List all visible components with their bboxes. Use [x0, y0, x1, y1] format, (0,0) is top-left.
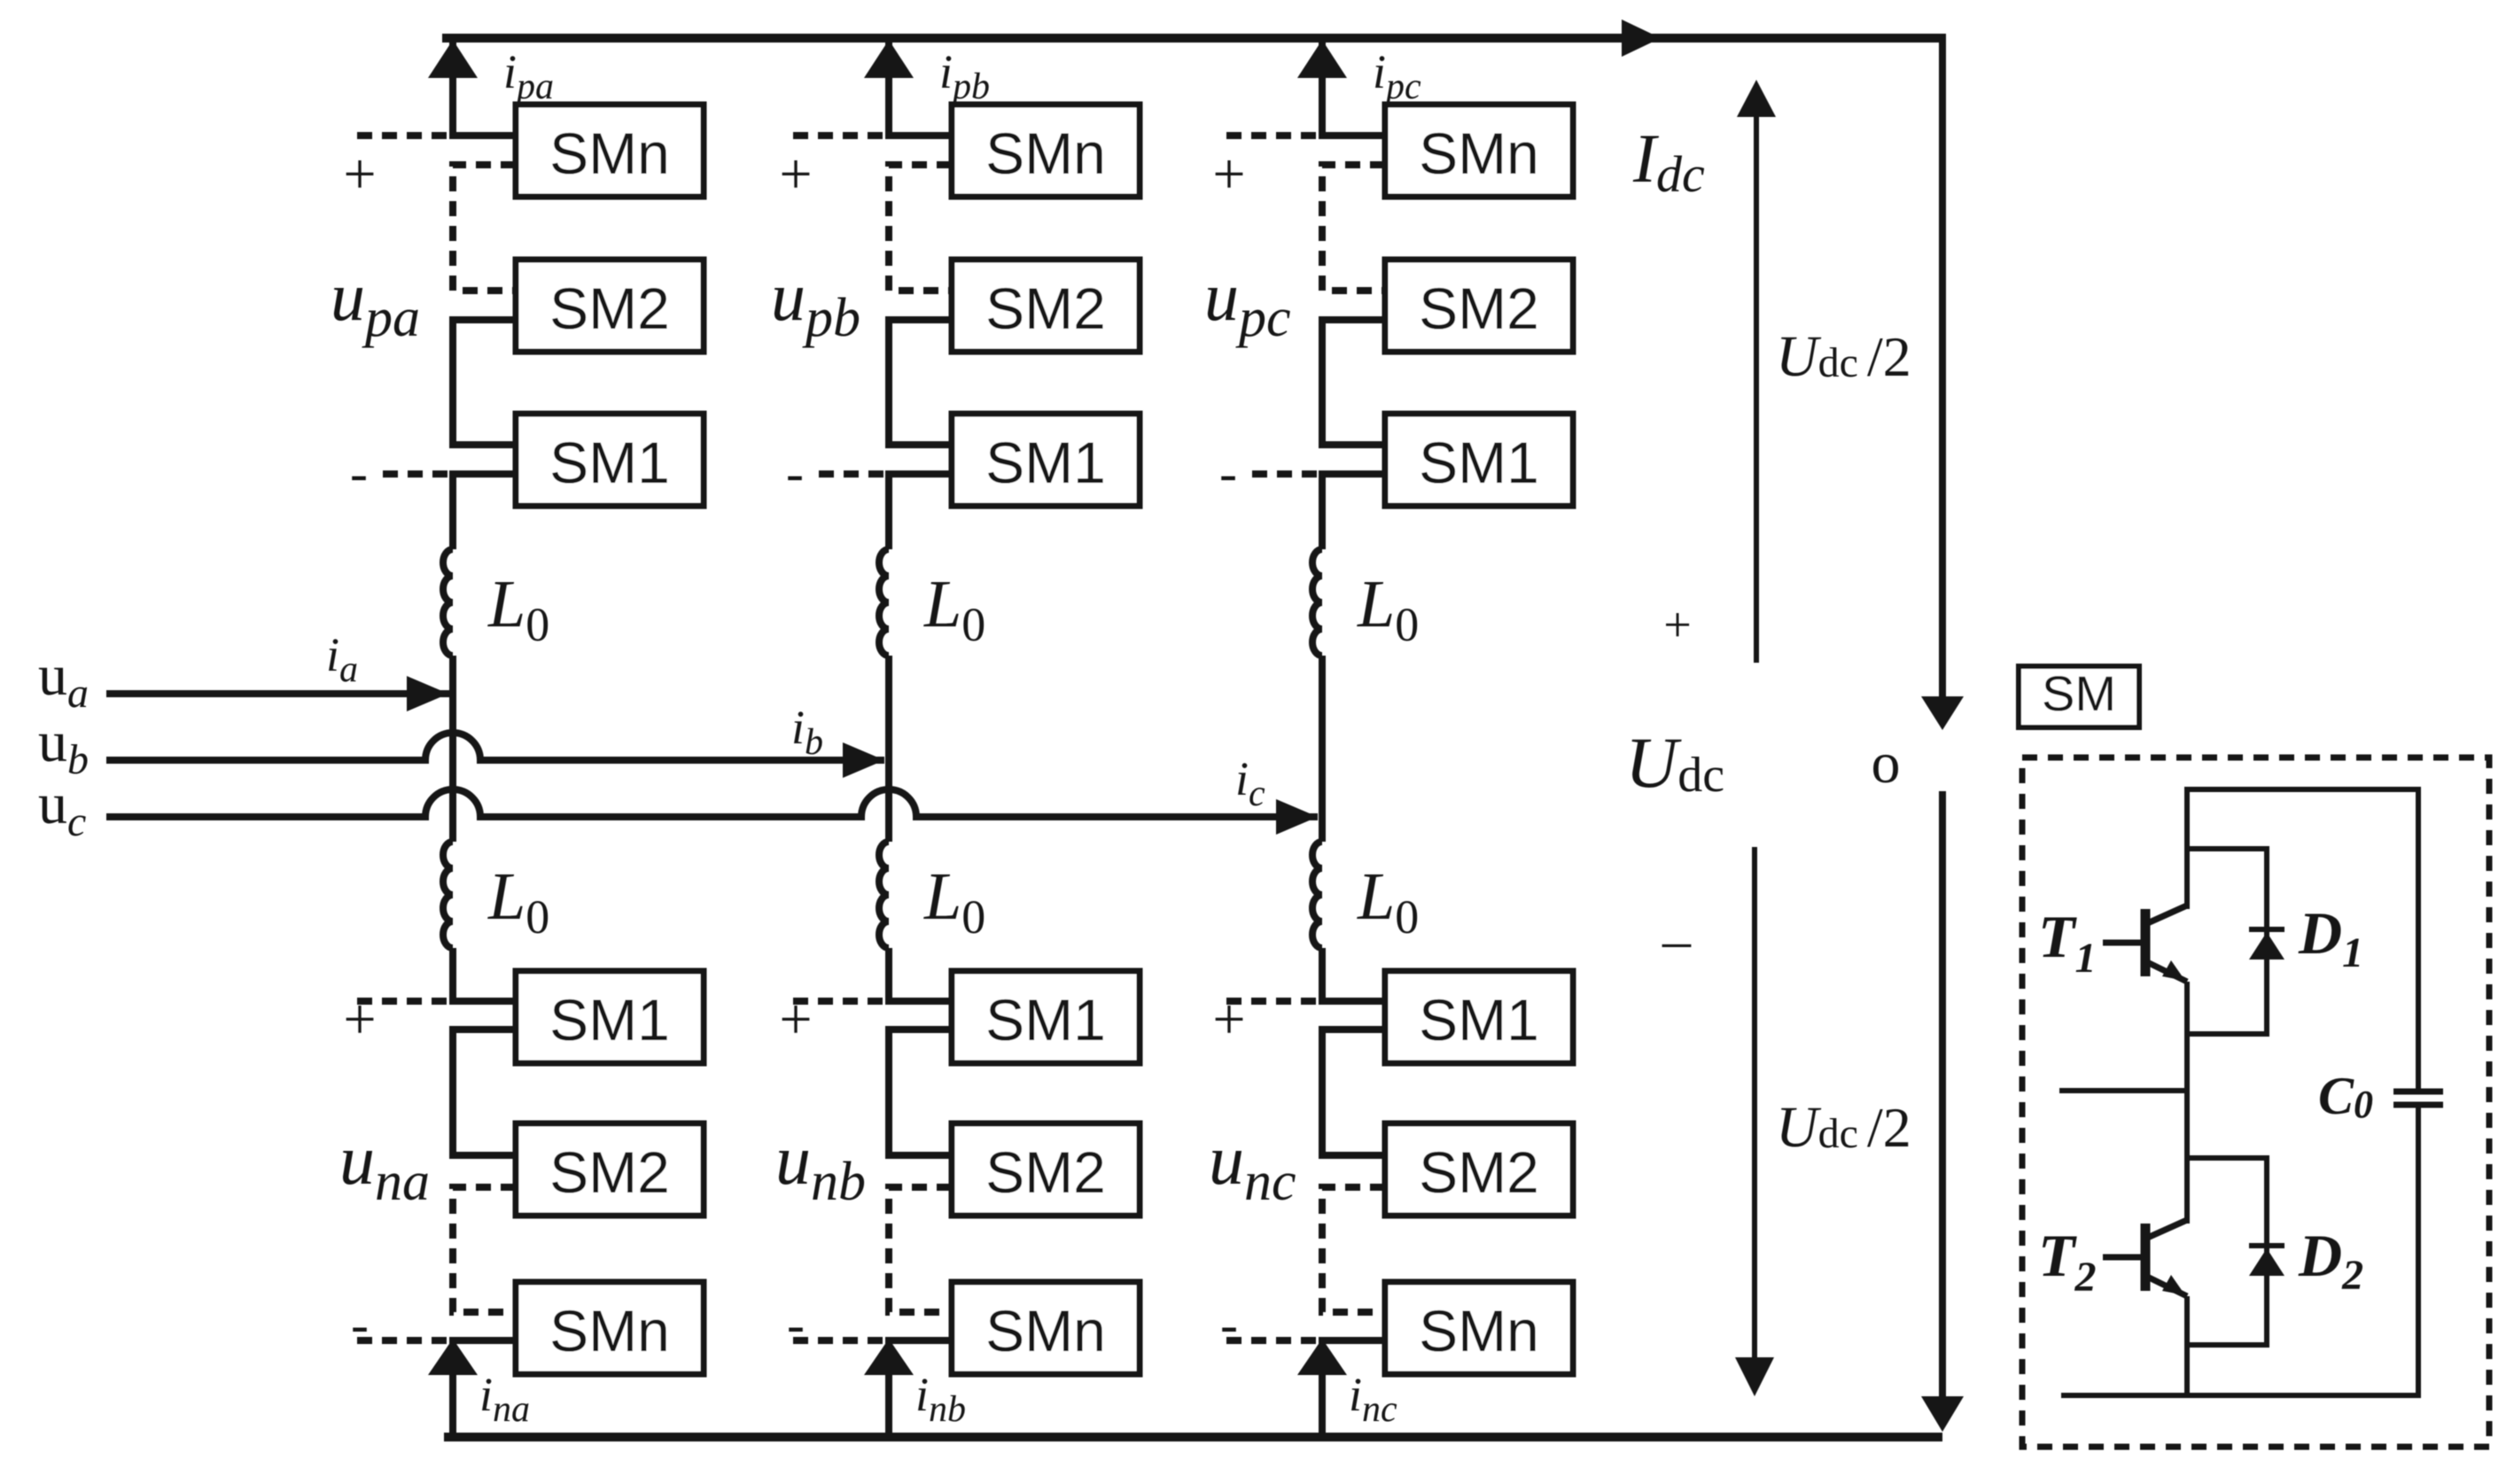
wire dashed - lead lower arm c — [1226, 1337, 1319, 1344]
label + (DC midpoint upper) — [1663, 598, 1692, 653]
svg-text:SM1: SM1 — [1419, 987, 1539, 1053]
arrow AC current i_c — [1276, 799, 1318, 835]
svg-text:-: - — [1220, 1295, 1238, 1354]
SM box SM2 lower arm a — [516, 1123, 704, 1216]
svg-text:SM1: SM1 — [985, 430, 1106, 495]
arrow down to node o (upper right) — [1921, 696, 1964, 730]
wire phase a upper arm: bus to SMn terminal — [453, 38, 516, 136]
capacitor C0 — [2393, 1092, 2443, 1105]
svg-text:–: – — [1662, 908, 1692, 971]
label T1 — [2038, 903, 2097, 982]
label C0 — [2318, 1067, 2373, 1126]
wire bottom DC bus (negative rail) — [444, 1433, 1942, 1441]
arrow arm current i_nb — [864, 1339, 914, 1375]
node o (DC midpoint) — [1872, 731, 1901, 796]
label i_na — [479, 1368, 530, 1430]
svg-text:SM2: SM2 — [1419, 1139, 1539, 1205]
label + (lower arm a) — [343, 987, 376, 1052]
svg-text:SM2: SM2 — [985, 276, 1106, 341]
wire dashed + lead lower arm b — [793, 998, 885, 1005]
wire SM1 to arm inductor upper c — [1322, 474, 1385, 549]
label u_pa arm voltage — [331, 258, 420, 348]
svg-text:SMn: SMn — [549, 120, 670, 186]
inductor L0 lower arm c — [1312, 842, 1322, 948]
wire dashed - lead lower arm a — [357, 1337, 449, 1344]
inductor L0 upper arm a — [443, 549, 453, 656]
svg-text:+: + — [779, 987, 812, 1052]
label i_c — [1235, 752, 1265, 814]
diode branch D1 — [2187, 849, 2267, 1034]
svg-text:SM2: SM2 — [549, 276, 670, 341]
arrow arm current i_pa — [428, 40, 478, 78]
label u_nc arm voltage — [1209, 1122, 1296, 1212]
svg-text:SMn: SMn — [985, 1298, 1106, 1364]
wire SM bottom rail — [2061, 1107, 2418, 1395]
SM box SM1 lower arm c — [1385, 971, 1573, 1063]
svg-text:/2: /2 — [1867, 325, 1911, 388]
label + (upper arm c polarity) — [1212, 142, 1245, 206]
wire dashed + lead lower arm c — [1226, 998, 1319, 1005]
label i_pa — [503, 45, 554, 107]
SM box SM1 lower arm a — [516, 971, 704, 1063]
wire dashed link SM2 to SMn lower arm c — [1322, 1187, 1385, 1312]
label i_pc — [1373, 45, 1421, 107]
label + (lower arm c) — [1212, 987, 1245, 1052]
SM box SM2 lower arm c — [1385, 1123, 1573, 1216]
wire dashed link SM2 to SMn lower arm a — [453, 1187, 516, 1312]
SM box SM2 upper arm a — [516, 260, 704, 352]
label L0 upper a — [487, 567, 549, 651]
SM box SM1 upper arm c — [1385, 414, 1573, 506]
arrow I_dc flow on top bus — [1622, 19, 1661, 57]
label u_pc arm voltage — [1204, 258, 1291, 348]
svg-text:SM1: SM1 — [549, 430, 670, 495]
svg-text:-: - — [1219, 444, 1237, 502]
wire SM1 to SM2 lower arm a — [453, 1029, 516, 1155]
label D1 — [2298, 899, 2363, 976]
arrow down into bottom bus (lower right) — [1921, 1396, 1964, 1432]
transistor T2 (IGBT) — [2103, 1220, 2187, 1296]
wire dashed link SMn to SM2 upper arm b — [889, 165, 952, 291]
arrow arm current i_na — [428, 1339, 478, 1375]
wire dashed link SM2 to SMn lower arm b — [889, 1187, 952, 1312]
svg-text:+: + — [343, 142, 376, 206]
label - (upper arm a polarity) — [350, 444, 368, 502]
wire SMn to bottom bus lower arm a — [453, 1340, 516, 1437]
svg-text:-: - — [351, 1295, 369, 1354]
wire SM left rail mid segment — [2184, 982, 2190, 1224]
diode branch D2 — [2187, 1158, 2267, 1345]
SM detail dashed enclosure — [2022, 758, 2489, 1447]
wire SMn to bottom bus lower arm b — [889, 1340, 952, 1437]
wire dashed - lead upper arm b — [819, 470, 885, 478]
wire top DC bus (positive rail) — [442, 34, 1942, 43]
label I_dc — [1632, 120, 1705, 203]
diode D1 symbol — [2249, 929, 2284, 960]
label T2 — [2038, 1222, 2097, 1301]
label i_b — [791, 701, 823, 763]
wire phase c upper arm: bus to SMn terminal — [1322, 38, 1385, 136]
label i_pb — [939, 45, 990, 107]
wire dashed link SMn to SM2 upper arm c — [1322, 165, 1385, 291]
svg-text:+: + — [1212, 987, 1245, 1052]
SM box SM1 upper arm a — [516, 414, 704, 506]
wire dashed - lead upper arm c — [1252, 470, 1319, 478]
label i_nc — [1349, 1368, 1397, 1430]
wire SM output midpoint — [2059, 1088, 2187, 1093]
arrow arm current i_nc — [1297, 1339, 1347, 1375]
label u_pb arm voltage — [771, 258, 860, 348]
wire SM top rail — [2187, 789, 2418, 1089]
wire SM2 to SM1 upper arm c — [1322, 320, 1385, 445]
label L0 lower c — [1357, 859, 1419, 944]
inductor L0 upper arm b — [879, 549, 889, 656]
wire dashed + lead upper arm a — [357, 132, 449, 139]
svg-text:SM1: SM1 — [549, 987, 670, 1053]
wire SM left rail lower segment — [2184, 1296, 2190, 1395]
transistor T1 (IGBT) — [2103, 905, 2187, 982]
svg-text:o: o — [1872, 731, 1901, 796]
label + (upper arm b polarity) — [779, 142, 812, 206]
SM box SMn lower arm c — [1385, 1282, 1573, 1374]
wire SM1 to SM2 lower arm b — [889, 1029, 952, 1155]
svg-text:SM1: SM1 — [1419, 430, 1539, 495]
svg-text:+: + — [1663, 598, 1692, 653]
wire AC input u_b with crossover hop at phase a — [106, 733, 884, 760]
label U_dc — [1625, 722, 1724, 803]
label L0 upper b — [923, 567, 985, 651]
label u_a — [38, 643, 89, 717]
wire inductor to SM1 lower arm c — [1322, 948, 1385, 1001]
SM box SMn upper arm c — [1385, 105, 1573, 197]
wire AC input u_c with crossover hops at phases a and b — [106, 789, 1318, 817]
svg-text:SM1: SM1 — [985, 987, 1106, 1053]
label U_dc/2 upper — [1776, 324, 1911, 389]
inductor L0 lower arm b — [879, 842, 889, 948]
SM box SM2 lower arm b — [952, 1123, 1140, 1216]
wire inductor to SM1 lower arm a — [453, 948, 516, 1001]
label u_nb arm voltage — [775, 1122, 866, 1212]
arrow arm current i_pc — [1297, 40, 1347, 78]
label - (lower arm b) — [787, 1295, 805, 1354]
label - (lower arm c) — [1220, 1295, 1238, 1354]
svg-text:+: + — [779, 142, 812, 206]
arrow U_dc/2 lower (points down) — [1735, 847, 1774, 1396]
svg-text:-: - — [787, 1295, 805, 1354]
svg-text:-: - — [786, 444, 804, 502]
svg-text:SM2: SM2 — [985, 1139, 1106, 1205]
wire dashed - lead upper arm a — [383, 470, 449, 478]
arrow U_dc/2 upper (points up) — [1737, 80, 1776, 663]
wire SM1 to arm inductor upper a — [453, 474, 516, 549]
arrow arm current i_pb — [864, 40, 914, 78]
label i_nb — [915, 1368, 966, 1430]
wire phase b upper arm: bus to SMn terminal — [889, 38, 952, 136]
SM box SM2 upper arm c — [1385, 260, 1573, 352]
wire phase a mid vertical — [449, 656, 456, 842]
wire right vertical from node o to bottom bus — [1939, 791, 1946, 1400]
label - (DC midpoint lower) — [1662, 908, 1692, 971]
svg-text:/2: /2 — [1867, 1096, 1911, 1159]
label u_na arm voltage — [339, 1122, 430, 1212]
svg-text:SM2: SM2 — [549, 1139, 670, 1205]
label U_dc/2 lower — [1776, 1095, 1911, 1160]
wire SM left rail upper segment — [2184, 849, 2190, 909]
svg-text:SMn: SMn — [985, 120, 1106, 186]
wire SM2 to SM1 upper arm a — [453, 320, 516, 445]
wire SM2 to SM1 upper arm b — [889, 320, 952, 445]
label - (upper arm c polarity) — [1219, 444, 1237, 502]
wire dashed + lead upper arm c — [1226, 132, 1319, 139]
wire dashed link SMn to SM2 upper arm a — [453, 165, 516, 291]
wire SMn to bottom bus lower arm c — [1322, 1340, 1385, 1437]
SM box SMn lower arm a — [516, 1282, 704, 1374]
svg-text:SMn: SMn — [549, 1298, 670, 1364]
inductor L0 lower arm a — [443, 842, 453, 948]
label u_c — [38, 772, 86, 845]
SM box SM2 upper arm b — [952, 260, 1140, 352]
label i_a — [326, 628, 358, 690]
SM box SM1 upper arm b — [952, 414, 1140, 506]
label - (lower arm a) — [351, 1295, 369, 1354]
label - (upper arm b polarity) — [786, 444, 804, 502]
svg-text:+: + — [1212, 142, 1245, 206]
wire SM1 to SM2 lower arm c — [1322, 1029, 1385, 1155]
wire dashed - lead lower arm b — [793, 1337, 885, 1344]
label L0 upper c — [1357, 567, 1419, 651]
wire SM1 to arm inductor upper b — [889, 474, 952, 549]
SM box SM1 lower arm b — [952, 971, 1140, 1063]
wire AC input u_a — [106, 690, 449, 697]
svg-text:SMn: SMn — [1419, 1298, 1539, 1364]
label + (lower arm b) — [779, 987, 812, 1052]
inductor L0 upper arm c — [1312, 549, 1322, 656]
label L0 lower b — [923, 859, 985, 944]
label L0 lower a — [487, 859, 549, 944]
arrow AC current i_b — [843, 742, 884, 778]
wire dashed + lead lower arm a — [357, 998, 449, 1005]
svg-text:SM2: SM2 — [1419, 276, 1539, 341]
svg-text:-: - — [350, 444, 368, 502]
wire dashed + lead upper arm b — [793, 132, 885, 139]
label u_b — [38, 710, 89, 783]
wire phase c mid vertical — [1319, 656, 1326, 842]
svg-text:SMn: SMn — [1419, 120, 1539, 186]
svg-text:+: + — [343, 987, 376, 1052]
SM box SMn lower arm b — [952, 1282, 1140, 1374]
SM box SMn upper arm b — [952, 105, 1140, 197]
wire phase b mid vertical — [885, 656, 892, 842]
SM detail label box — [2019, 665, 2139, 727]
label D2 — [2298, 1222, 2363, 1299]
svg-text:SM: SM — [2042, 665, 2116, 721]
label + (upper arm a polarity) — [343, 142, 376, 206]
SM box SMn upper arm a — [516, 105, 704, 197]
arrow AC current i_a — [407, 676, 448, 711]
wire inductor to SM1 lower arm b — [889, 948, 952, 1001]
wire top-right DC bus corner down segment — [1939, 34, 1946, 700]
diode D2 symbol — [2249, 1246, 2284, 1276]
